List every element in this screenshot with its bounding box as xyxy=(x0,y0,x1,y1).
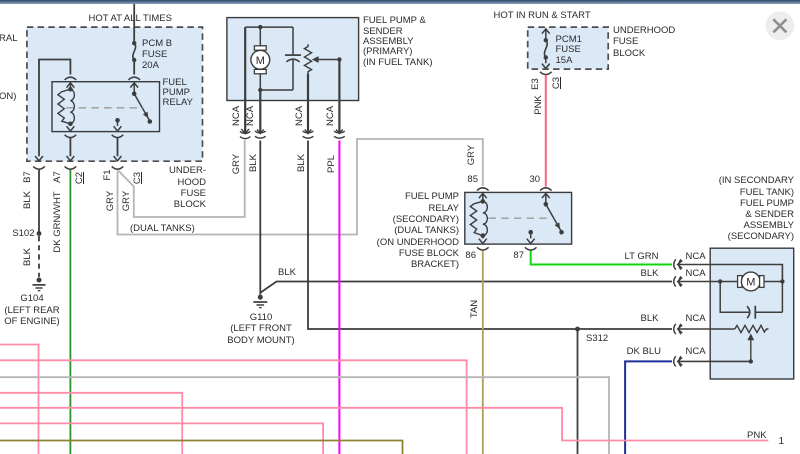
motor M2 (secondary) xyxy=(738,272,783,291)
connector cup below PCM1 box (E3/C3) xyxy=(540,72,552,75)
wire PNK bus 5 (to page 1) xyxy=(0,408,768,441)
pin label B7 (rotated) xyxy=(23,172,33,184)
wire label BLK (S102-G104, rotated) xyxy=(23,248,33,266)
relay blade arrowhead xyxy=(143,112,148,119)
relay switch common junction xyxy=(132,91,137,96)
wire label LT GRN xyxy=(598,251,659,262)
primary pump: top bus wire xyxy=(245,26,293,28)
relay 2 switch common junction xyxy=(544,202,549,207)
relay coil zigzag winding xyxy=(58,89,71,124)
pin label F1 (rotated) xyxy=(103,169,113,180)
pin label NCA 2 (rotated) xyxy=(246,105,256,125)
connector cup C2/A7 xyxy=(65,166,77,169)
wire label BLK (sender primary, rotated) xyxy=(297,154,307,172)
label (IN SECONDARY FUEL TANK) FUEL PUMP & SENDER ASSEMBLY (SECONDARY) xyxy=(664,175,794,242)
svg-text:M: M xyxy=(746,277,755,289)
inline connector NCA (GRY lead) xyxy=(240,129,250,139)
fuel pump relay (secondary) box U2 xyxy=(465,192,572,244)
sender wiper arrow (secondary) xyxy=(750,338,752,361)
wire GRY: F1 to primary pump (via jog) xyxy=(118,140,244,217)
pin label E3 (rotated) xyxy=(531,78,541,90)
wire label BLK (sender secondary) xyxy=(598,313,659,324)
arrow at fuse block edge (F1) xyxy=(114,156,122,161)
wire: 87 contact to relay bottom edge with arrow xyxy=(114,120,122,131)
connector cup below relay (87) xyxy=(112,135,124,138)
relay 2 coil arcs xyxy=(483,201,488,235)
label UNDER-HOOD FUSE BLOCK xyxy=(135,165,206,211)
wire GRY bus 3 xyxy=(0,377,609,454)
wire label PPL (rotated) xyxy=(327,155,337,173)
pin label 85 xyxy=(458,174,478,185)
arrow at fuse block edge (B7) xyxy=(35,156,43,161)
wire label DK BLU xyxy=(598,346,661,357)
wire DK BLU xyxy=(625,361,672,454)
ground label G110 (LEFT FRONT BODY MOUNT) xyxy=(222,312,300,346)
wire label TAN (rotated) xyxy=(470,300,480,318)
underhood fuse block dashed box (HOT AT ALL TIMES) xyxy=(27,27,203,161)
relay 2 87 contact xyxy=(528,230,533,235)
connector cup below relay (coil) xyxy=(65,135,77,138)
relay 2 coil top junction xyxy=(481,199,486,204)
wire PNK bus 4 xyxy=(0,393,182,454)
label FUEL PUMP RELAY (SECONDARY) (DUAL TANKS) (ON UNDERHOOD FUSE BLOCK BRACKET) xyxy=(341,191,459,270)
cut-off left margin text ON) xyxy=(0,91,16,102)
pin label 87 xyxy=(504,250,524,261)
wire label GRY (right, rotated) xyxy=(122,191,132,211)
wire label BLK B7 (rotated) xyxy=(23,191,33,209)
wire: coil bottom to relay bottom edge with arrow xyxy=(67,124,75,131)
wire BLK: S312 drop to bottom edge xyxy=(577,329,579,454)
label (DUAL TANKS) xyxy=(130,223,195,234)
pin label NCA (BLK motor) xyxy=(686,268,706,279)
wire TAN/olive bus 7 xyxy=(0,441,403,454)
wire: fuse to box bottom with arrow xyxy=(542,58,550,69)
wire TAN: pin 86 to bottom edge xyxy=(482,251,484,454)
pin label A7 (rotated) xyxy=(53,172,63,184)
title HOT AT ALL TIMES xyxy=(89,13,172,24)
inline connector NCA (BLK sender lead) xyxy=(303,129,314,138)
connector label C3 (PCM1, rotated, underlined) xyxy=(552,77,562,89)
wire PNK bus 2 xyxy=(0,360,467,454)
sender resistor R2 (secondary, zigzag) xyxy=(735,325,769,332)
pin label 86 xyxy=(456,250,476,261)
cut-off left margin text RAL xyxy=(0,33,17,44)
PCM1 fuse feed arrow (top of box) xyxy=(542,29,550,40)
wire BLK: B7 to S102 xyxy=(38,170,40,234)
connector label C3 (rotated, underlined) xyxy=(133,172,143,184)
arrow at fuse block edge (A7) xyxy=(67,156,75,161)
connector label C2 (rotated, underlined) xyxy=(75,172,85,184)
splice S102 xyxy=(37,231,42,236)
relay coil top junction xyxy=(68,87,73,92)
pump lead 4 (PPL wiper) down to inline connector xyxy=(338,60,340,134)
wire label BLK (G110 branch) xyxy=(278,267,296,278)
wiper junction dot (primary) xyxy=(337,57,341,61)
ground G110 xyxy=(253,295,267,308)
inline connector NCA (BLK motor) xyxy=(674,276,683,286)
arrow into relay 2 (pin 85) xyxy=(479,193,487,201)
wiper junction dot (secondary) xyxy=(749,359,753,363)
wire: coil bottom to relay 2 edge with arrow (pin 86) xyxy=(479,236,487,244)
wire: 87 to fuse block edge xyxy=(117,138,119,156)
relay switch blade xyxy=(134,94,150,121)
fuse PCM1 15A xyxy=(544,38,548,60)
pump lead 3 (BLK sender) down to inline connector xyxy=(307,74,309,133)
junction motor left (secondary) xyxy=(718,279,722,283)
arrow into relay (switch pin) xyxy=(130,83,138,94)
pump lead 2 (BLK) down to inline connector xyxy=(259,90,261,133)
relay 2 switch blade xyxy=(546,204,562,231)
wire label BLK (pump primary, rotated) xyxy=(249,154,259,172)
splice S312 xyxy=(575,327,580,332)
relay coil bottom junction xyxy=(68,122,73,127)
fuse PCM B 20A xyxy=(132,41,136,62)
relay 2 blade arrowhead xyxy=(555,222,560,229)
relay coil: dashed actuator link xyxy=(66,107,144,109)
node label S102 xyxy=(0,228,35,239)
relay coil arcs xyxy=(70,89,74,124)
wire label GRY (pump primary, rotated) xyxy=(232,153,242,173)
wire: connector to secondary sender resistor xyxy=(678,328,735,330)
relay 2 coil bottom junction xyxy=(481,233,486,238)
ground G104 xyxy=(33,278,46,291)
label PCM1 FUSE 15A xyxy=(556,35,582,67)
close button xyxy=(766,11,795,40)
wire GRY: F1 to secondary relay 85 (DUAL TANKS) xyxy=(118,139,483,235)
relay blade end contact xyxy=(148,119,153,124)
wire LT GRN: relay 2 pin 87 to secondary pump xyxy=(531,251,672,265)
capacitor C1 (primary, suppression) xyxy=(285,27,301,90)
wire: coil to fuse block edge (A7) xyxy=(69,138,71,156)
fuel pump relay box U1 xyxy=(52,82,160,132)
wire label PNK (rotated) xyxy=(534,95,544,115)
wire PNK: PCM1 fuse to relay pin 30 xyxy=(545,75,547,187)
wire: fuse to relay pin xyxy=(133,60,135,75)
inline connector NCA (BLK sender secondary) xyxy=(674,324,683,334)
connector cup at relay 2 top (pin 85) xyxy=(477,188,489,191)
pin label NCA (BLK sender) xyxy=(686,313,706,324)
arrow into relay 2 (pin 30) xyxy=(542,193,550,204)
capacitor C2 (secondary, suppression) xyxy=(720,282,782,319)
connector cup below relay 2 (87) xyxy=(525,247,537,250)
pin label NCA (DK BLU) xyxy=(686,346,706,357)
inline connector NCA (LT GRN) xyxy=(674,259,683,269)
junction motor right (secondary) xyxy=(780,279,784,283)
svg-text:M: M xyxy=(256,55,265,67)
primary pump: junction at motor top xyxy=(258,25,262,29)
wire BLK branch: G110 stem diagonal to horizontal run xyxy=(260,282,672,293)
wire BLK: pump lead 2 to G110 xyxy=(259,141,261,295)
wire: battery feed to PCM B fuse xyxy=(133,4,135,43)
fuel pump & sender assembly (secondary) box xyxy=(710,248,794,379)
inline connector NCA (DK BLU) xyxy=(674,356,683,366)
wire: connector to secondary wiper xyxy=(678,360,751,362)
top navy title bar xyxy=(0,0,800,4)
pin label NCA 1 (rotated) xyxy=(232,105,242,125)
wire PNK bus 1 xyxy=(0,345,39,454)
wire: coil top loop over to B7 xyxy=(39,60,70,157)
wire label DK GRN/WHT (rotated) xyxy=(53,192,63,253)
connector cup C3/F1 xyxy=(112,166,124,169)
wire: relay2 87 to bottom edge with arrow xyxy=(527,232,535,243)
connector cup C2/B7 xyxy=(33,166,45,169)
node label S312 xyxy=(586,333,608,344)
relay 2 blade end contact xyxy=(559,230,564,235)
connector cup at relay top (coil) xyxy=(65,77,77,80)
pin label NCA (LT GRN) xyxy=(686,251,706,262)
wire PNK bus 6 xyxy=(0,423,323,454)
connector cup at relay top (switch pin) xyxy=(128,77,140,80)
inline connector NCA (BLK lead) xyxy=(255,129,266,138)
label PCM B FUSE 20A xyxy=(142,38,172,71)
wire BLK: sender lead 3 down and right to S312 xyxy=(308,141,672,330)
underhood fuse block dashed box (PCM1) xyxy=(528,27,609,69)
pin label NCA 3 (rotated) xyxy=(295,105,305,125)
relay 2 coil zigzag winding xyxy=(470,201,483,235)
title HOT IN RUN & START xyxy=(494,10,591,21)
wire: connector to secondary pump (LT GRN circuit) xyxy=(678,265,783,282)
primary pump: junction at motor bottom xyxy=(258,88,262,92)
arrow coil top to relay edge xyxy=(67,83,75,89)
wire: connector into secondary pump motor xyxy=(678,281,738,283)
sender wiper arrow (primary) xyxy=(317,59,340,61)
pin label 30 xyxy=(530,174,541,185)
wire DK GRN/WHT: A7 down to bottom edge xyxy=(69,170,71,454)
fuel pump & sender assembly (primary) box xyxy=(227,18,359,101)
motor M1 (primary) xyxy=(251,27,270,90)
relay 2 dashed actuator link xyxy=(489,217,551,219)
relay 87 contact xyxy=(115,118,120,123)
pump lead 1 (GRY) down to inline connector xyxy=(244,27,246,133)
page reference 1 xyxy=(779,436,785,447)
wire label GRY (left, rotated) xyxy=(106,191,116,211)
label FUEL PUMP & SENDER ASSEMBLY (PRIMARY) (IN FUEL TANK) xyxy=(363,16,433,68)
pin label NCA 4 (rotated) xyxy=(326,105,336,125)
wire label BLK (motor secondary) xyxy=(598,268,659,279)
connector cup at relay 2 top (pin 30) xyxy=(540,188,552,191)
wire label GRY (relay 85 feed, rotated) xyxy=(467,145,477,165)
ground label G104 (LEFT REAR OF ENGINE) xyxy=(2,293,62,327)
wire PPL: lead 4 down to bottom edge xyxy=(338,141,340,454)
wire label PNK (bottom) xyxy=(747,430,767,441)
connector cup below relay 2 (86) xyxy=(477,247,489,250)
label FUEL PUMP RELAY xyxy=(163,78,193,109)
sender resistor R1 (primary, zigzag) xyxy=(304,44,311,74)
primary pump: bottom bus wire xyxy=(260,89,293,91)
inline connector NCA (PPL lead) xyxy=(334,129,345,138)
label UNDERHOOD FUSE BLOCK xyxy=(613,25,675,60)
wire BLK dashed: S102 to G104 xyxy=(38,236,40,277)
